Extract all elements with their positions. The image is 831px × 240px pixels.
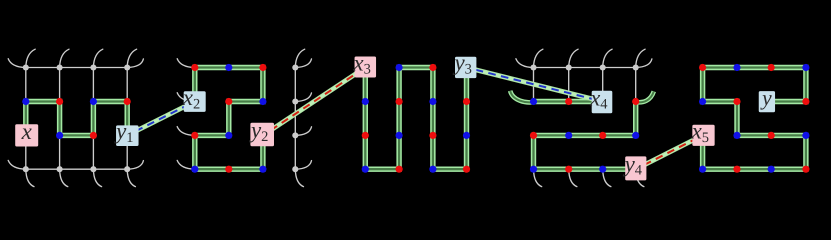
G1 boundary half-edge up col1	[26, 49, 35, 67]
G2 boundary half-edge left r1	[177, 59, 195, 68]
G4 half-edge up col4	[636, 49, 645, 67]
G4 half-edge left r1	[516, 59, 534, 68]
G4 node red (t,r2)	[632, 98, 639, 105]
G4 continuation hook (left, green double)	[510, 91, 534, 103]
G4 gray lattice vertices	[530, 64, 638, 70]
G1 boundary half-edge down col1	[26, 169, 34, 186]
G4 node red (q,r4)	[565, 166, 572, 173]
label x4 (blue)	[589, 85, 612, 113]
G5 node red (f,r2)	[733, 98, 740, 105]
G4 node red (r,r3)	[599, 132, 606, 139]
G1 boundary half-edge down col2	[60, 169, 68, 186]
G2 node red (c,r1)	[259, 64, 266, 71]
label y (blue)	[759, 86, 775, 112]
G4 path segment hook..x4 (green double)	[534, 99, 603, 104]
G3 node red (432.9,135.4)	[429, 132, 436, 139]
G1 node blue (c2,r3)	[56, 132, 63, 139]
G4 half-edge up col1	[534, 49, 543, 67]
G3 strip half-edge right r4	[295, 161, 311, 170]
G4 node blue (p,r2)	[530, 98, 537, 105]
G3 node blue (432.9,101.5)	[429, 98, 436, 105]
G2 node red (a,r1)	[191, 64, 198, 71]
label y4 (pink)	[623, 151, 647, 180]
G3 gray strip line	[294, 68, 296, 170]
G5 node blue (f,r3)	[733, 132, 740, 139]
G5 node red (g,r3)	[768, 132, 775, 139]
G3 node blue (399.1,135.4)	[396, 132, 403, 139]
label x3 (pink)	[352, 50, 376, 77]
G4 node blue (t,r3)	[632, 132, 639, 139]
G1 node red (c3,r3)	[90, 132, 97, 139]
G1 node red (c2,r2)	[56, 98, 63, 105]
G2 boundary half-edge left r2 (behind x2)	[177, 93, 195, 102]
G3 strip half-edge right r3	[295, 127, 311, 136]
G5 node red (e,r1)	[699, 64, 706, 71]
G5 node blue (e,r2)	[699, 98, 706, 105]
G2 node red (a,r3)	[191, 132, 198, 139]
G2 boundary half-edge left r4	[177, 160, 195, 169]
G2 node red (b,r2)	[225, 98, 232, 105]
G4 half-edge down col3	[603, 169, 611, 186]
G3 node blue (399.1,67.5)	[396, 64, 403, 71]
G1 boundary half-edge right top	[127, 59, 143, 68]
G4 half-edge up col2	[569, 49, 578, 67]
G3 node red (466.5,101.5)	[463, 98, 470, 105]
G1 boundary half-edge right bottom	[127, 161, 143, 170]
label x5 (pink)	[691, 119, 715, 146]
connector y2--x3 (dashed red on green)	[263, 68, 365, 136]
G4 gray lattice	[534, 68, 636, 102]
G4 node red (p,r3)	[530, 132, 537, 139]
G1 boundary half-edge left top	[8, 59, 26, 68]
G5 node red (h,r4)	[802, 166, 809, 173]
G3 node red (399.1,101.5)	[396, 98, 403, 105]
G4 half-edge down col2	[569, 169, 577, 186]
G1 node red (c4,r2)	[124, 98, 131, 105]
connector y1--x2 (dashed blue on green)	[127, 102, 195, 136]
G1 boundary half-edge down col4	[127, 169, 135, 186]
G1 gray lattice vertices	[23, 64, 131, 172]
label y1 (blue)	[114, 119, 138, 147]
G1 node blue (c3,r2)	[90, 98, 97, 105]
label x (pink)	[15, 119, 38, 147]
G1 boundary half-edge left bottom	[8, 160, 26, 169]
G5 node blue (e,r4)	[699, 166, 706, 173]
G3 node blue (466.5,135.4)	[463, 132, 470, 139]
G3 node blue (365.3,101.5)	[362, 98, 369, 105]
G3 strip half-edge up	[295, 49, 304, 67]
svg-text:y: y	[760, 86, 772, 110]
G2 node blue (b,r3)	[225, 132, 232, 139]
G4 node blue (p,r4)	[530, 166, 537, 173]
G2 path edges x2..y2 (green double)	[195, 68, 263, 170]
G3 strip half-edge right r1	[295, 59, 311, 68]
G5 path edges x5..y (green double)	[703, 68, 806, 170]
G1 boundary half-edge down col3	[93, 169, 101, 186]
G2 node red (b,r4)	[225, 166, 232, 173]
G5 node blue (h,r1)	[802, 64, 809, 71]
G5 node blue (f,r1)	[733, 64, 740, 71]
G5 node blue (g,r4)	[768, 166, 775, 173]
G2 boundary half-edge left r3	[177, 127, 195, 136]
label y2 (pink)	[249, 118, 274, 147]
G4 path segment continuation..y4 (green double)	[534, 102, 636, 170]
grid fragment G1 gray lattice	[26, 68, 127, 170]
G1 node blue (c1,r2)	[22, 98, 29, 105]
G2 node blue (b,r1)	[225, 64, 232, 71]
connector y4--x5 (dashed red on green)	[636, 135, 703, 169]
label y3 (blue)	[452, 50, 476, 78]
G3 strip half-edge down	[295, 169, 303, 186]
G3 node blue (365.3,169.2)	[362, 166, 369, 173]
G5 node red (f,r4)	[733, 166, 740, 173]
G4 half-edge down col1	[534, 169, 542, 186]
connector y3--x4 (dashed blue on green)	[467, 68, 603, 102]
G4 continuation hook (right, green double)	[636, 91, 654, 102]
G5 node red (g,r1)	[768, 64, 775, 71]
G4 node red (q,r2)	[565, 98, 572, 105]
G1 boundary half-edge up col3	[93, 49, 102, 67]
G1 path edges x..y1 (green double)	[26, 102, 127, 136]
G1 boundary half-edge up col4	[127, 49, 136, 67]
label x2 (blue)	[182, 85, 206, 112]
G4 node blue (q,r3)	[565, 132, 572, 139]
G5 node red (h,r2)	[802, 98, 809, 105]
G2 node blue (c,r4)	[259, 166, 266, 173]
G1 boundary half-edge up col2	[60, 49, 69, 67]
G2 node blue (a,r4)	[191, 166, 198, 173]
G4 half-edge down col4	[636, 169, 644, 186]
G5 node blue (h,r3)	[802, 132, 809, 139]
svg-text:x: x	[21, 119, 33, 144]
G4 half-edge right r1	[636, 59, 652, 68]
G4 node blue (r,r4)	[599, 166, 606, 173]
G3 strip vertices	[292, 64, 298, 172]
G3 node red (432.9,67.5)	[429, 64, 436, 71]
G3 node blue (432.9,169.2)	[429, 166, 436, 173]
G4 half-edge up col3	[603, 49, 612, 67]
G3 node red (466.5,169.2)	[463, 166, 470, 173]
G3 node red (399.1,169.2)	[396, 166, 403, 173]
G3 strip half-edge right r2	[295, 93, 311, 102]
G3 node red (365.3,135.4)	[362, 132, 369, 139]
G2 node blue (c,r2)	[259, 98, 266, 105]
G3 snake path edges x3..y3 (green double)	[365, 68, 466, 170]
